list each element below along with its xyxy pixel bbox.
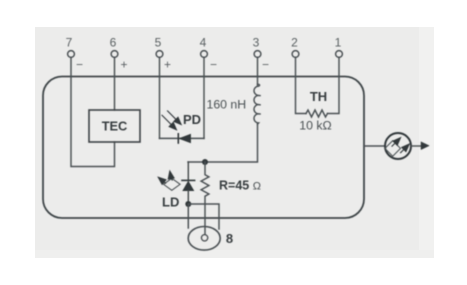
svg-text:TH: TH [310,89,327,104]
case collar wires [188,204,219,229]
svg-text:1: 1 [335,35,342,49]
photodiode PD diode [178,134,190,143]
wire pin7 down-right-up to TEC [71,57,115,166]
wire pin6 to TEC top [114,57,116,110]
wire PD bottom [160,137,205,139]
output emission arrows [392,138,409,153]
case center contact [202,235,208,241]
wire pin2 down [296,57,307,113]
laser diode LD [182,162,195,204]
LD emission arrows [158,171,174,184]
svg-text:−: − [210,57,217,71]
svg-text:3: 3 [253,35,260,49]
PD incident light arrows [162,111,181,130]
svg-text:LD: LD [162,195,179,210]
node: LD top junction [202,159,208,165]
svg-text:2: 2 [291,35,298,49]
svg-text:TEC: TEC [102,119,128,134]
wire pin3 down to coil [257,57,259,86]
svg-text:R=45 Ω: R=45 Ω [219,179,261,193]
node: LD bottom junction [185,201,191,207]
svg-text:−: − [262,57,269,71]
wire pin1 down [328,57,340,113]
package outline [43,77,364,219]
TEC block [89,110,140,142]
svg-text:8: 8 [226,231,233,246]
svg-text:−: − [76,57,83,71]
svg-text:PD: PD [183,112,201,127]
svg-text:10 kΩ: 10 kΩ [299,118,331,132]
pin 6 lead circle [111,51,118,58]
pin 2 lead circle [292,51,299,58]
svg-text:+: + [164,57,171,71]
pin 1 lead circle [336,51,343,58]
labels [66,35,342,71]
wire package to output [364,145,385,147]
optical output circle [385,133,411,159]
svg-text:+: + [120,57,127,71]
case ellipse pin 8 [188,227,220,251]
svg-text:160 nH: 160 nH [207,97,247,111]
pin 4 lead circle [201,51,208,58]
thermistor TH 10k zigzag [306,110,328,117]
pin 3 lead circle [254,51,261,58]
svg-text:7: 7 [66,35,73,49]
wire pin4 down [203,57,205,138]
LD emission diamond [164,178,181,190]
output beam arrow [412,145,422,147]
svg-text:5: 5 [155,35,162,49]
svg-text:4: 4 [200,35,207,49]
wire coil bottom to LD node [188,124,258,162]
inductor 160nH coil [254,84,261,124]
svg-text:6: 6 [110,35,117,49]
output diamond [385,141,401,157]
pin 5 lead circle [156,51,163,58]
resistor R=45 zigzag [201,162,209,238]
pin 7 lead circle [68,51,75,58]
wire pin5 down [159,57,161,138]
